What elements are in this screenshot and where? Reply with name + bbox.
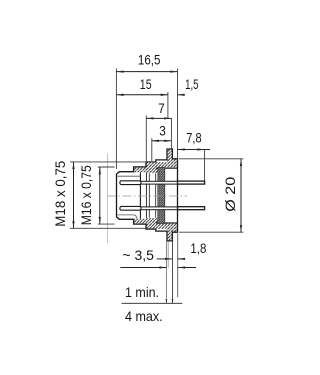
svg-text:~ 3,5: ~ 3,5 [122,247,154,263]
svg-text:1,8: 1,8 [190,240,206,256]
svg-text:4 max.: 4 max. [125,308,163,324]
svg-text:Ø 20: Ø 20 [222,177,238,212]
svg-text:1,5: 1,5 [185,76,199,92]
svg-text:7,8: 7,8 [186,129,201,145]
svg-text:M18 x 0,75: M18 x 0,75 [52,160,68,226]
svg-text:7: 7 [158,100,165,116]
svg-text:3: 3 [159,122,166,138]
svg-text:16,5: 16,5 [138,52,161,68]
svg-text:15: 15 [140,76,152,92]
svg-text:M16 x 0,75: M16 x 0,75 [78,165,94,225]
svg-text:1 min.: 1 min. [125,284,159,300]
